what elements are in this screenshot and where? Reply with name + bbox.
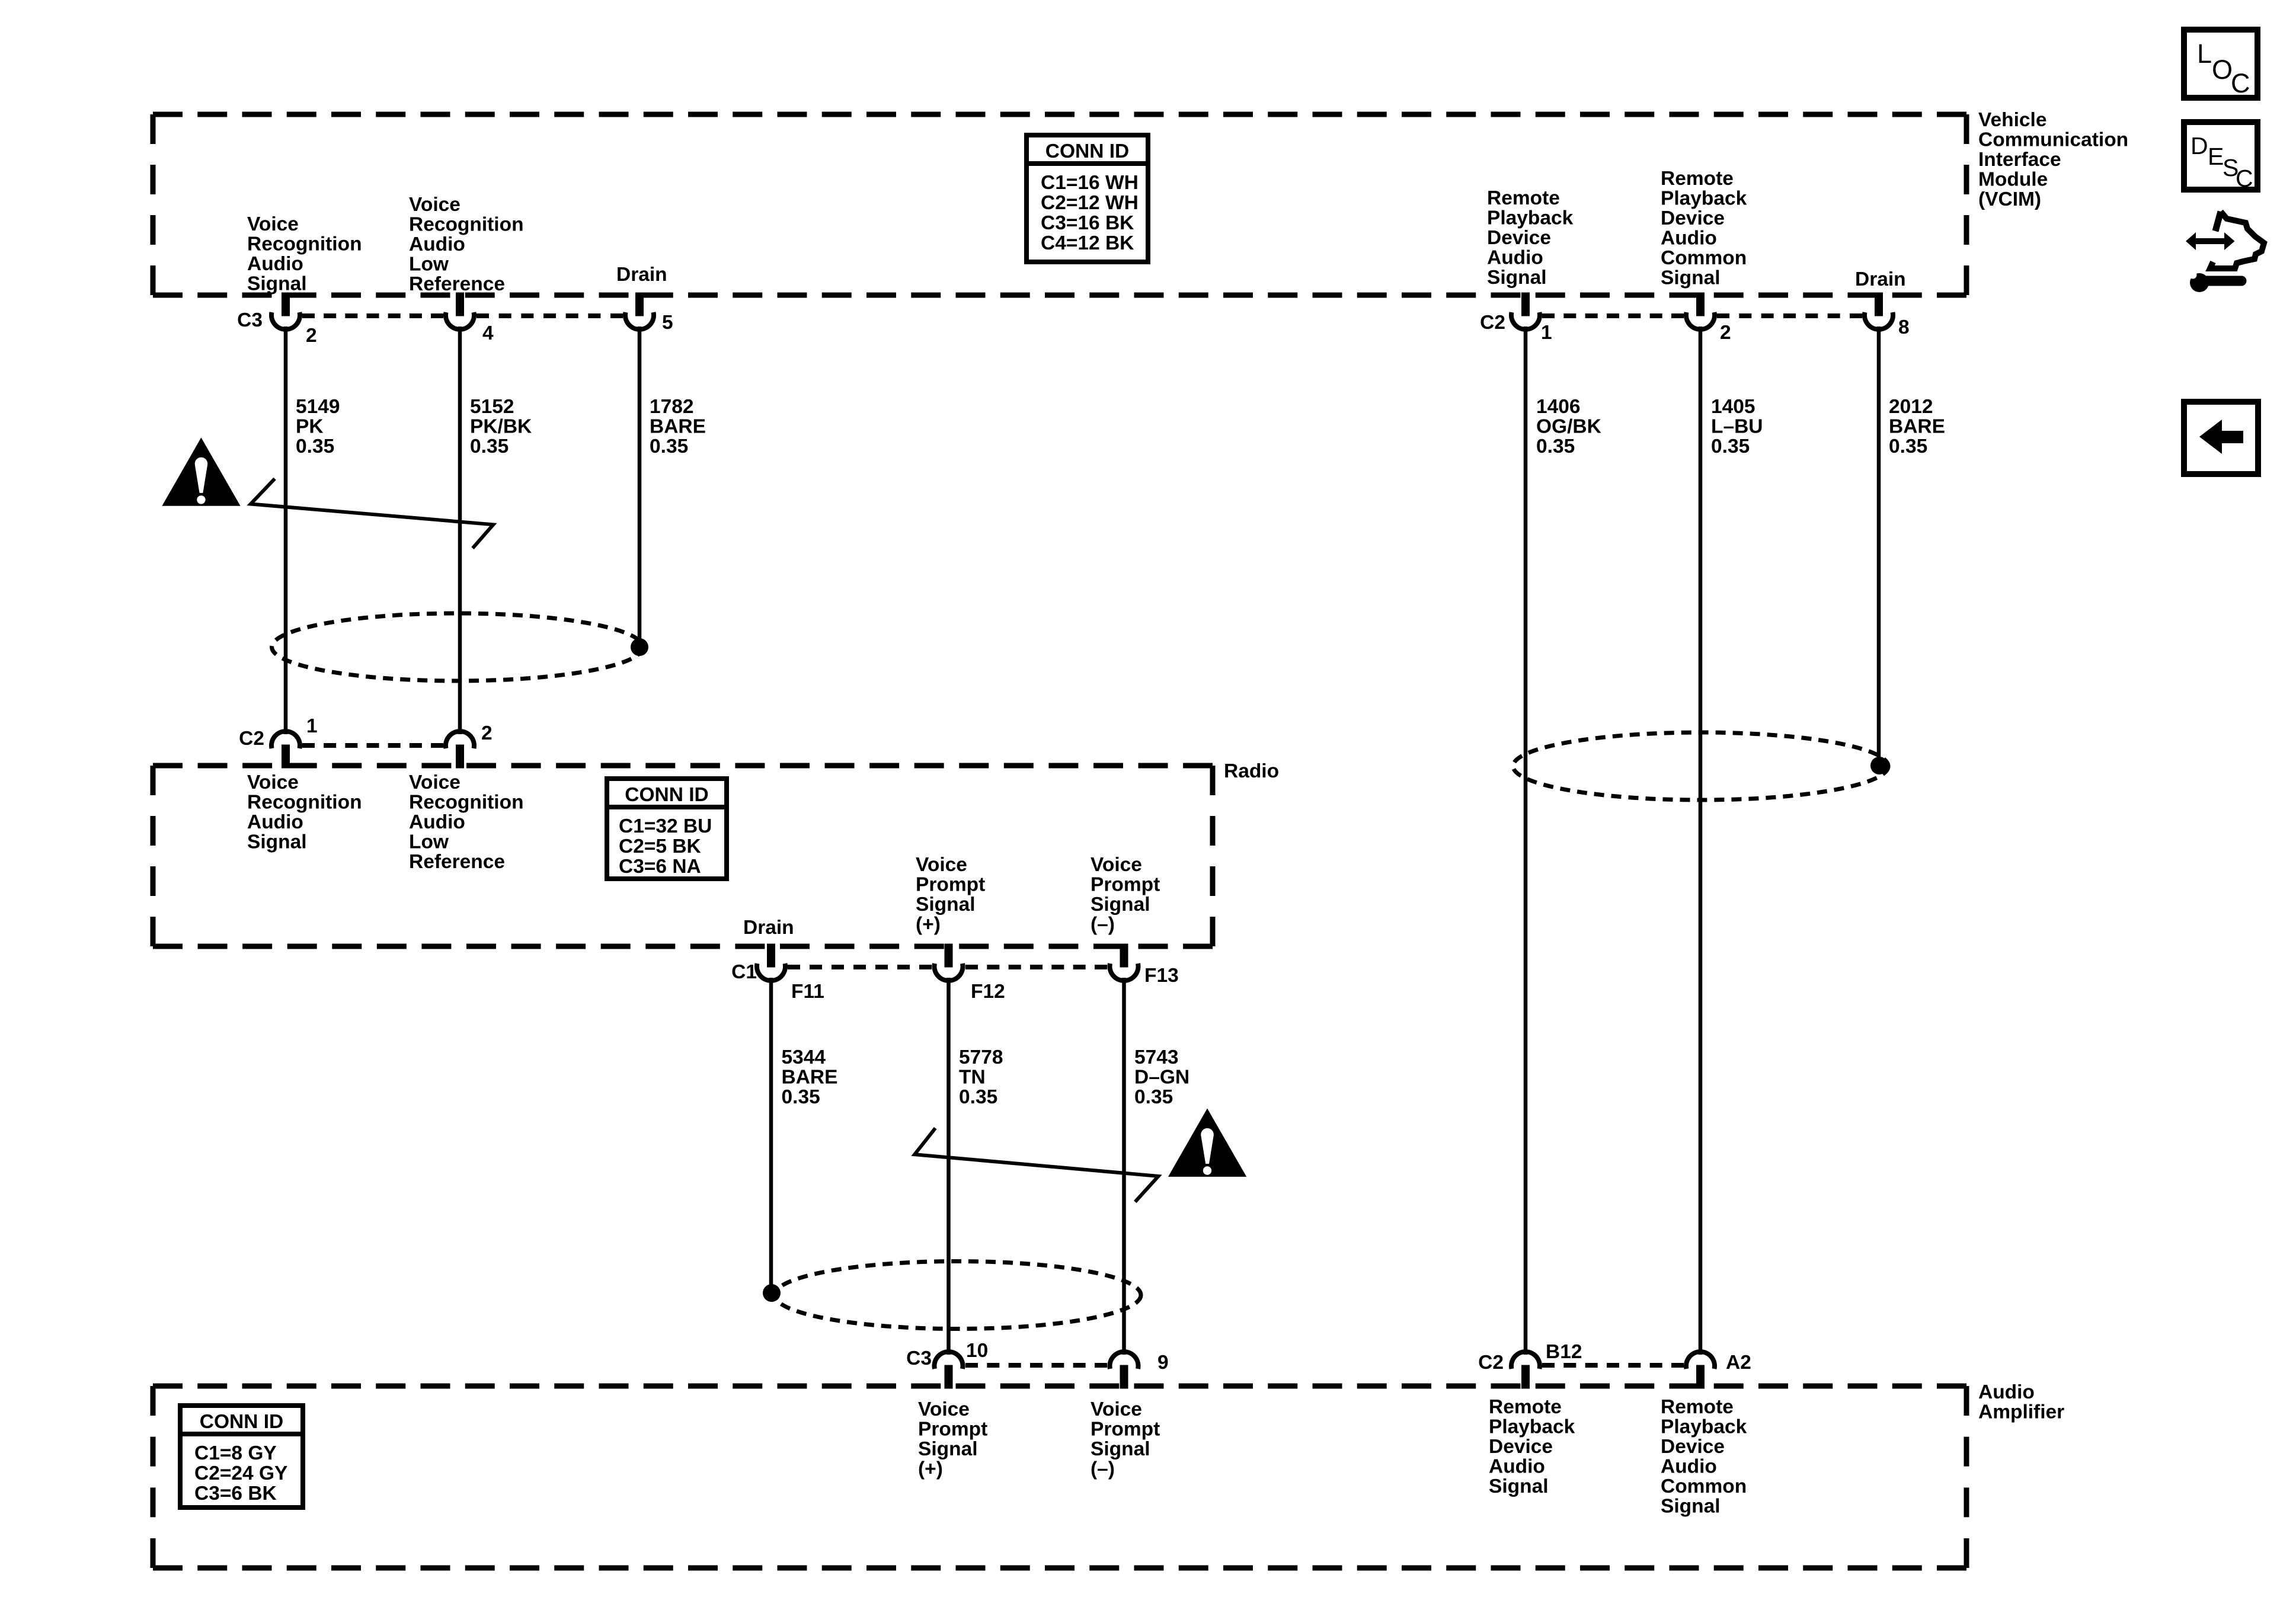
svg-text:Drain: Drain xyxy=(616,264,667,286)
svg-text:PK/BK: PK/BK xyxy=(470,416,532,438)
connector VCIM C2 pin 1 xyxy=(1511,293,1540,329)
svg-text:Signal: Signal xyxy=(1661,1496,1721,1518)
wire 2012 BARE drain xyxy=(1877,327,1881,766)
svg-text:Prompt: Prompt xyxy=(1091,1419,1160,1441)
svg-text:D–GN: D–GN xyxy=(1134,1067,1189,1089)
connector Radio C1 pin F12 xyxy=(935,944,963,981)
svg-text:Audio: Audio xyxy=(247,253,303,275)
wire label 5152 PK/BK 0.35 xyxy=(470,396,532,457)
svg-text:5743: 5743 xyxy=(1134,1046,1179,1068)
svg-text:0.35: 0.35 xyxy=(470,436,509,457)
svg-text:BARE: BARE xyxy=(782,1067,838,1089)
pin number 9 xyxy=(1157,1352,1169,1374)
VCIM pin label: Voice Recognition Audio Low Reference xyxy=(409,194,524,295)
svg-text:F12: F12 xyxy=(971,981,1005,1003)
svg-text:Remote: Remote xyxy=(1661,168,1734,190)
svg-text:E: E xyxy=(2208,143,2224,170)
label C3 xyxy=(237,309,263,331)
pin number F12 xyxy=(971,981,1005,1003)
Radio pin label: Drain xyxy=(743,917,794,939)
svg-text:Low: Low xyxy=(409,831,449,853)
pin number 1 xyxy=(1541,322,1552,344)
Radio pin label: Voice Prompt Signal (+) xyxy=(916,854,985,936)
Amp pin label: Remote Playback Device Audio Common Signal xyxy=(1661,1396,1747,1518)
svg-text:Playback: Playback xyxy=(1661,1416,1747,1438)
svg-text:5149: 5149 xyxy=(296,396,340,418)
svg-text:Interface: Interface xyxy=(1978,149,2061,171)
svg-text:C2: C2 xyxy=(1480,312,1505,334)
svg-text:0.35: 0.35 xyxy=(1536,436,1575,457)
svg-text:Common: Common xyxy=(1661,1475,1747,1497)
svg-text:5: 5 xyxy=(662,312,673,334)
connector VCIM C2 pin 2 xyxy=(1686,293,1715,329)
wire 1406 OG/BK xyxy=(1524,327,1528,1355)
twisted pair ellipse (lower middle) xyxy=(775,1262,1141,1329)
pin number 2 (C3) xyxy=(306,325,317,347)
connector Radio C1 pin F13 xyxy=(1110,944,1139,981)
pin number 2 (Radio) xyxy=(481,722,493,744)
VCIM pin label: Remote Playback Device Audio Common Signal xyxy=(1661,168,1747,289)
svg-text:C3=6 BK: C3=6 BK xyxy=(194,1483,277,1505)
svg-text:Signal: Signal xyxy=(1487,267,1547,289)
wire label 2012 BARE 0.35 xyxy=(1889,396,1945,457)
svg-text:2: 2 xyxy=(306,325,317,347)
twisted-pair pointer arrow (right) xyxy=(914,1128,1158,1202)
svg-text:Recognition: Recognition xyxy=(247,233,362,255)
svg-text:Signal: Signal xyxy=(1091,894,1150,916)
svg-text:B12: B12 xyxy=(1546,1341,1582,1363)
svg-text:Voice: Voice xyxy=(247,213,299,235)
in-harness dashed link C3 pins 2-4 xyxy=(302,313,443,318)
svg-text:Audio: Audio xyxy=(1661,1456,1717,1478)
wire 5149 PK xyxy=(284,327,288,734)
svg-text:C: C xyxy=(2231,68,2250,98)
svg-text:F11: F11 xyxy=(791,981,824,1003)
svg-text:Audio: Audio xyxy=(247,811,303,833)
pin number 1 (Radio) xyxy=(306,715,318,737)
twisted-pair pointer arrow (left) xyxy=(251,479,493,548)
VCIM module label xyxy=(1978,109,2128,210)
drain splice dot (lower middle) xyxy=(763,1284,781,1302)
svg-text:Audio: Audio xyxy=(409,233,465,255)
svg-text:D: D xyxy=(2191,132,2208,159)
connector Amp C3 pin 10 xyxy=(935,1352,963,1388)
svg-text:F13: F13 xyxy=(1144,965,1179,987)
svg-text:Drain: Drain xyxy=(743,917,794,939)
warning triangle symbol (right) xyxy=(1168,1109,1246,1177)
svg-text:C3: C3 xyxy=(237,309,263,331)
svg-text:Playback: Playback xyxy=(1489,1416,1575,1438)
svg-text:C2=5 BK: C2=5 BK xyxy=(619,836,701,857)
CONN ID table (Radio) xyxy=(607,779,727,879)
svg-text:2: 2 xyxy=(1720,322,1731,344)
svg-text:(+): (+) xyxy=(916,914,941,936)
svg-text:Module: Module xyxy=(1978,169,2048,191)
wire label 5743 D-GN 0.35 xyxy=(1134,1046,1189,1108)
svg-text:8: 8 xyxy=(1898,316,1910,338)
wire 5778 TN xyxy=(946,978,951,1355)
drain splice dot (right) xyxy=(1870,757,1888,774)
module box: Audio Amplifier xyxy=(153,1386,1966,1568)
svg-text:Communication: Communication xyxy=(1978,129,2128,151)
svg-text:Audio: Audio xyxy=(1489,1456,1545,1478)
Radio module label xyxy=(1224,760,1279,782)
drain splice dot (upper left) xyxy=(631,638,648,656)
svg-text:Prompt: Prompt xyxy=(916,874,985,896)
svg-text:TN: TN xyxy=(959,1067,986,1089)
connector Amp C2 pin B12 xyxy=(1511,1352,1540,1388)
svg-text:(–): (–) xyxy=(1091,1458,1115,1480)
pin number F13 xyxy=(1144,965,1179,987)
svg-text:BARE: BARE xyxy=(1889,416,1945,438)
svg-text:Playback: Playback xyxy=(1661,188,1747,210)
pin number 5 xyxy=(662,312,673,334)
svg-text:9: 9 xyxy=(1157,1352,1169,1374)
module box: Radio xyxy=(153,766,1213,946)
svg-text:Voice: Voice xyxy=(918,1398,970,1420)
svg-text:(–): (–) xyxy=(1091,914,1115,936)
wire 5743 D-GN xyxy=(1122,978,1126,1355)
svg-text:Reference: Reference xyxy=(409,851,505,873)
pin number 10 xyxy=(966,1340,988,1362)
wire 5344 BARE drain xyxy=(769,978,773,1293)
svg-text:1: 1 xyxy=(1541,322,1552,344)
wire label 5149 PK 0.35 xyxy=(296,396,340,457)
svg-text:Remote: Remote xyxy=(1487,187,1560,209)
svg-text:Audio: Audio xyxy=(409,811,465,833)
label C2 (Amp) xyxy=(1478,1352,1504,1374)
wire label 1405 L-BU 0.35 xyxy=(1711,396,1763,457)
Radio pin label: Voice Recognition Audio Low Reference xyxy=(409,772,524,873)
svg-text:(VCIM): (VCIM) xyxy=(1978,188,2041,210)
svg-text:PK: PK xyxy=(296,416,324,438)
svg-text:Common: Common xyxy=(1661,247,1747,269)
Audio Amplifier module label xyxy=(1978,1381,2064,1423)
svg-text:C1=16 WH: C1=16 WH xyxy=(1041,172,1139,194)
svg-text:O: O xyxy=(2212,55,2233,85)
Amp pin label: Voice Prompt Signal (-) xyxy=(1091,1398,1160,1480)
pin number 4 xyxy=(482,322,494,344)
VCIM pin label: Drain (left) xyxy=(616,264,667,286)
Radio pin label: Voice Prompt Signal (-) xyxy=(1091,854,1160,936)
svg-text:C3: C3 xyxy=(906,1347,932,1369)
connector Amp C3 pin 9 xyxy=(1110,1352,1139,1388)
svg-text:Device: Device xyxy=(1487,227,1551,249)
svg-text:Recognition: Recognition xyxy=(409,792,524,814)
twisted pair ellipse (right) xyxy=(1513,732,1888,800)
svg-text:0.35: 0.35 xyxy=(959,1086,997,1108)
svg-text:A2: A2 xyxy=(1726,1352,1751,1374)
svg-text:Audio: Audio xyxy=(1978,1381,2035,1403)
svg-text:Signal: Signal xyxy=(1091,1438,1150,1460)
svg-text:Reference: Reference xyxy=(409,273,505,295)
CONN ID table (VCIM) xyxy=(1027,135,1148,262)
svg-text:C3=16 BK: C3=16 BK xyxy=(1041,212,1134,234)
label C2 (VCIM) xyxy=(1480,312,1505,334)
svg-text:C3=6 NA: C3=6 NA xyxy=(619,856,701,878)
wire label 5778 TN 0.35 xyxy=(959,1046,1003,1108)
in-harness dashed link pins 10-9 xyxy=(965,1363,1107,1368)
svg-text:2012: 2012 xyxy=(1889,396,1933,418)
svg-text:Recognition: Recognition xyxy=(247,792,362,814)
in-harness dashed link C3 pins 4-5 xyxy=(477,313,623,318)
svg-text:C1: C1 xyxy=(731,961,757,983)
VCIM pin label: Voice Recognition Audio Signal xyxy=(247,213,362,295)
Amp pin label: Voice Prompt Signal (+) xyxy=(918,1398,987,1480)
svg-text:1406: 1406 xyxy=(1536,396,1581,418)
svg-text:Signal: Signal xyxy=(247,273,307,295)
in-harness dashed link F12-F13 xyxy=(965,965,1107,969)
svg-text:Signal: Signal xyxy=(1661,267,1721,289)
svg-text:0.35: 0.35 xyxy=(782,1086,820,1108)
svg-text:C2=12 WH: C2=12 WH xyxy=(1041,192,1139,214)
svg-text:Remote: Remote xyxy=(1489,1396,1562,1418)
svg-text:C2=24 GY: C2=24 GY xyxy=(194,1462,287,1484)
svg-text:0.35: 0.35 xyxy=(1889,436,1927,457)
svg-text:Audio: Audio xyxy=(1487,247,1543,269)
connector Radio C1 pin F11 xyxy=(757,944,785,981)
svg-text:Device: Device xyxy=(1489,1436,1553,1458)
pin number B12 xyxy=(1546,1341,1582,1363)
wire 5152 PK/BK xyxy=(458,327,462,734)
icon box LOC xyxy=(2184,30,2257,98)
wire label 1406 OG/BK 0.35 xyxy=(1536,396,1601,457)
svg-text:Signal: Signal xyxy=(918,1438,978,1460)
Radio pin label: Voice Recognition Audio Signal xyxy=(247,772,362,853)
svg-text:4: 4 xyxy=(482,322,494,344)
svg-text:Voice: Voice xyxy=(916,854,967,876)
svg-text:C2: C2 xyxy=(239,728,264,750)
svg-text:Vehicle: Vehicle xyxy=(1978,109,2046,131)
VCIM pin label: Drain (right) xyxy=(1855,268,1906,290)
svg-text:C: C xyxy=(2236,165,2253,192)
module box: Vehicle Communication Interface Module (VCIM) xyxy=(153,114,1966,295)
svg-text:Recognition: Recognition xyxy=(409,214,524,236)
svg-text:Prompt: Prompt xyxy=(1091,874,1160,896)
svg-text:C4=12 BK: C4=12 BK xyxy=(1041,232,1134,254)
svg-text:0.35: 0.35 xyxy=(296,436,334,457)
svg-text:Playback: Playback xyxy=(1487,207,1574,229)
svg-text:BARE: BARE xyxy=(650,416,706,438)
svg-text:Remote: Remote xyxy=(1661,1396,1734,1418)
in-harness dashed link F11-F12 xyxy=(788,965,932,969)
label C2 (Radio) xyxy=(239,728,264,750)
svg-text:1782: 1782 xyxy=(650,396,694,418)
svg-text:Voice: Voice xyxy=(1091,1398,1142,1420)
in-harness dashed link C2 pins 2-8 xyxy=(1717,313,1862,318)
svg-text:Radio: Radio xyxy=(1224,760,1279,782)
twisted pair ellipse (upper left) xyxy=(272,613,643,681)
svg-text:0.35: 0.35 xyxy=(1711,436,1750,457)
connector VCIM C3 pin 2 xyxy=(271,293,300,329)
svg-text:(+): (+) xyxy=(918,1458,943,1480)
svg-text:Device: Device xyxy=(1661,1436,1725,1458)
in-harness dashed link pins B12-A2 xyxy=(1542,1363,1684,1368)
svg-text:Amplifier: Amplifier xyxy=(1978,1401,2064,1423)
wire 1405 L-BU xyxy=(1699,327,1703,1355)
svg-text:CONN ID: CONN ID xyxy=(1045,140,1129,162)
pin number F11 xyxy=(791,981,824,1003)
svg-text:Prompt: Prompt xyxy=(918,1419,987,1441)
label C1 xyxy=(731,961,757,983)
connector Radio C2 pin 1 xyxy=(271,731,300,768)
svg-text:C1=32 BU: C1=32 BU xyxy=(619,815,712,837)
svg-text:5152: 5152 xyxy=(470,396,514,418)
svg-text:1: 1 xyxy=(306,715,318,737)
warning triangle symbol (left) xyxy=(162,437,240,505)
pin number 2 (C2) xyxy=(1720,322,1731,344)
pin number 8 xyxy=(1898,316,1910,338)
icon box back arrow xyxy=(2184,402,2258,474)
svg-text:0.35: 0.35 xyxy=(650,436,688,457)
in-harness dashed link C2 pins 1-2 xyxy=(1542,313,1684,318)
svg-text:Voice: Voice xyxy=(247,772,299,793)
svg-text:5778: 5778 xyxy=(959,1046,1003,1068)
svg-text:Voice: Voice xyxy=(409,194,461,216)
svg-text:0.35: 0.35 xyxy=(1134,1086,1173,1108)
connector Amp C2 pin A2 xyxy=(1686,1352,1715,1388)
VCIM pin label: Remote Playback Device Audio Signal xyxy=(1487,187,1574,289)
connector VCIM C3 pin 4 xyxy=(446,293,474,329)
svg-text:CONN ID: CONN ID xyxy=(625,784,708,806)
svg-text:L–BU: L–BU xyxy=(1711,416,1763,438)
svg-text:C2: C2 xyxy=(1478,1352,1504,1374)
wire label 1782 BARE 0.35 xyxy=(650,396,706,457)
svg-text:L: L xyxy=(2197,39,2212,69)
svg-text:Device: Device xyxy=(1661,207,1725,229)
svg-text:Voice: Voice xyxy=(409,772,461,793)
icon box DESC xyxy=(2184,122,2257,192)
Amp pin label: Remote Playback Device Audio Signal xyxy=(1489,1396,1575,1497)
wire 1782 BARE drain xyxy=(638,327,642,647)
pin number A2 xyxy=(1726,1352,1751,1374)
svg-text:Signal: Signal xyxy=(247,831,307,853)
svg-text:1405: 1405 xyxy=(1711,396,1755,418)
svg-text:Low: Low xyxy=(409,254,449,276)
connector VCIM C3 pin 5 xyxy=(625,293,654,329)
svg-text:10: 10 xyxy=(966,1340,988,1362)
connector VCIM C2 pin 8 xyxy=(1865,293,1893,329)
icon: vehicle diagnostic (double arrow, outline, wrench) xyxy=(2182,212,2264,292)
svg-text:Audio: Audio xyxy=(1661,228,1717,249)
in-harness dashed link Radio C2 pins 1-2 xyxy=(302,743,443,748)
svg-text:OG/BK: OG/BK xyxy=(1536,416,1601,438)
connector Radio C2 pin 2 xyxy=(446,731,474,768)
svg-text:Signal: Signal xyxy=(916,894,976,916)
svg-text:Voice: Voice xyxy=(1091,854,1142,876)
CONN ID table (Audio Amplifier) xyxy=(180,1406,303,1507)
svg-text:CONN ID: CONN ID xyxy=(200,1411,283,1433)
svg-text:5344: 5344 xyxy=(782,1046,826,1068)
svg-text:Drain: Drain xyxy=(1855,268,1906,290)
svg-text:C1=8 GY: C1=8 GY xyxy=(194,1442,277,1464)
wire label 5344 BARE 0.35 xyxy=(782,1046,838,1108)
svg-text:Signal: Signal xyxy=(1489,1475,1549,1497)
label C3 (Amp) xyxy=(906,1347,932,1369)
svg-text:2: 2 xyxy=(481,722,493,744)
